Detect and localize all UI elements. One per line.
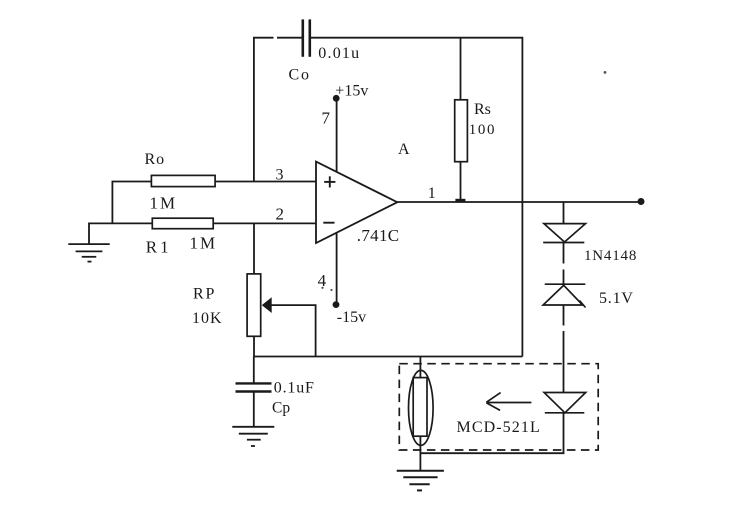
pin label 1 <box>428 185 436 202</box>
svg-text:0.01u: 0.01u <box>318 45 360 62</box>
label +15v <box>335 82 368 99</box>
zener diode 5.1V <box>543 284 585 307</box>
svg-text:3: 3 <box>276 166 284 183</box>
label RP <box>193 286 216 303</box>
potentiometer RP wiper arrow <box>262 297 316 356</box>
op-amp U A 741C triangle <box>316 162 397 243</box>
label 1M of Ro <box>150 194 178 213</box>
wire zener to LED <box>563 305 565 393</box>
resistor Rs <box>455 100 468 162</box>
node terminal dot right end <box>638 198 645 205</box>
label 0.1uF <box>274 379 315 396</box>
wire R1 to op-amp pin 2 <box>213 222 316 224</box>
label Rs <box>474 101 491 118</box>
speck near pin 4 <box>321 287 332 291</box>
label MCD-521L <box>457 419 541 436</box>
diode D1 1N4148 <box>543 224 585 243</box>
svg-text:-15v: -15v <box>337 309 366 326</box>
svg-text:MCD-521L: MCD-521L <box>457 419 541 436</box>
wire RP bottom lead <box>253 336 255 357</box>
stray dot top right <box>604 71 607 74</box>
svg-text:10K: 10K <box>192 310 223 327</box>
label R1 <box>146 237 172 256</box>
svg-text:RP: RP <box>193 286 216 303</box>
capacitor Cp plates <box>236 383 272 391</box>
svg-text:.741C: .741C <box>357 226 400 245</box>
svg-text:1M: 1M <box>150 194 178 213</box>
op-amp plus input marking <box>324 176 335 187</box>
label 100 <box>469 122 496 138</box>
svg-text:1N4148: 1N4148 <box>584 248 637 264</box>
pin label 7 <box>322 109 331 128</box>
wire output pin 1 <box>397 201 641 203</box>
arrow light coupling <box>486 393 531 411</box>
wire top feedback from capacitor Co to right corner <box>311 38 522 357</box>
label Cp <box>272 400 290 417</box>
wire bottom rail <box>254 356 523 358</box>
svg-text:0.1uF: 0.1uF <box>274 379 315 396</box>
wire R1 left lead to ground stem <box>89 223 152 244</box>
resistor Ro <box>151 175 215 186</box>
label -15v <box>337 309 366 326</box>
label Ro <box>145 151 166 168</box>
svg-text:2: 2 <box>276 205 285 224</box>
pin 7 wire and +15v node dot <box>333 95 340 172</box>
capacitor Co plates <box>303 19 310 56</box>
svg-text:1M: 1M <box>190 234 218 253</box>
wire diode chain top <box>563 202 565 224</box>
svg-text:Co: Co <box>289 66 311 83</box>
wire photoresistor top lead <box>419 357 421 379</box>
svg-text:Ro: Ro <box>145 151 166 168</box>
pin 4 wire and -15v node dot <box>333 233 340 308</box>
svg-text:1: 1 <box>428 185 436 202</box>
op-amp minus input marking <box>323 222 334 224</box>
label 1N4148 <box>584 248 637 264</box>
wire Rs top lead <box>460 38 462 100</box>
wire pin2 node down to RP <box>253 223 255 274</box>
pin label 2 <box>276 205 285 224</box>
photoresistor cell (ellipse with resistor body) <box>409 370 434 445</box>
ground bottom center <box>397 471 444 491</box>
wire between diodes <box>563 243 565 285</box>
potentiometer RP body <box>247 274 261 336</box>
label 0.01u <box>318 45 360 62</box>
label .741C <box>357 226 400 245</box>
label 1M of R1 <box>190 234 218 253</box>
pin label 4 <box>318 271 327 290</box>
wire top feedback from left corner to capacitor Co <box>254 38 302 182</box>
svg-text:Rs: Rs <box>474 101 491 118</box>
svg-text:+15v: +15v <box>335 82 368 99</box>
svg-text:Cp: Cp <box>272 400 290 417</box>
wire LED bottom to photoresistor node <box>420 413 563 453</box>
label A <box>398 141 410 158</box>
wire photoresistor bottom lead to ground <box>419 436 421 471</box>
ground left <box>68 244 109 262</box>
junction Rs-output <box>455 199 465 202</box>
pin label 3 <box>276 166 284 183</box>
svg-text:A: A <box>398 141 410 158</box>
svg-text:100: 100 <box>469 122 496 138</box>
resistor R1 <box>152 218 213 229</box>
wire Cp top lead <box>253 357 255 384</box>
wire Ro left lead and corner <box>112 182 151 224</box>
svg-text:7: 7 <box>322 109 331 128</box>
wire Ro to op-amp pin 3 <box>215 181 316 183</box>
LED inside optocoupler <box>544 393 586 413</box>
label Co <box>289 66 311 83</box>
label 5.1V <box>599 290 634 307</box>
wire Cp bottom lead <box>253 392 255 427</box>
wire Rs bottom lead <box>460 162 462 202</box>
svg-text:5.1V: 5.1V <box>599 290 634 307</box>
dashed box MCD-521L <box>399 364 598 450</box>
ground below Cp <box>232 427 274 446</box>
label 10K <box>192 310 223 327</box>
svg-text:R1: R1 <box>146 237 172 256</box>
